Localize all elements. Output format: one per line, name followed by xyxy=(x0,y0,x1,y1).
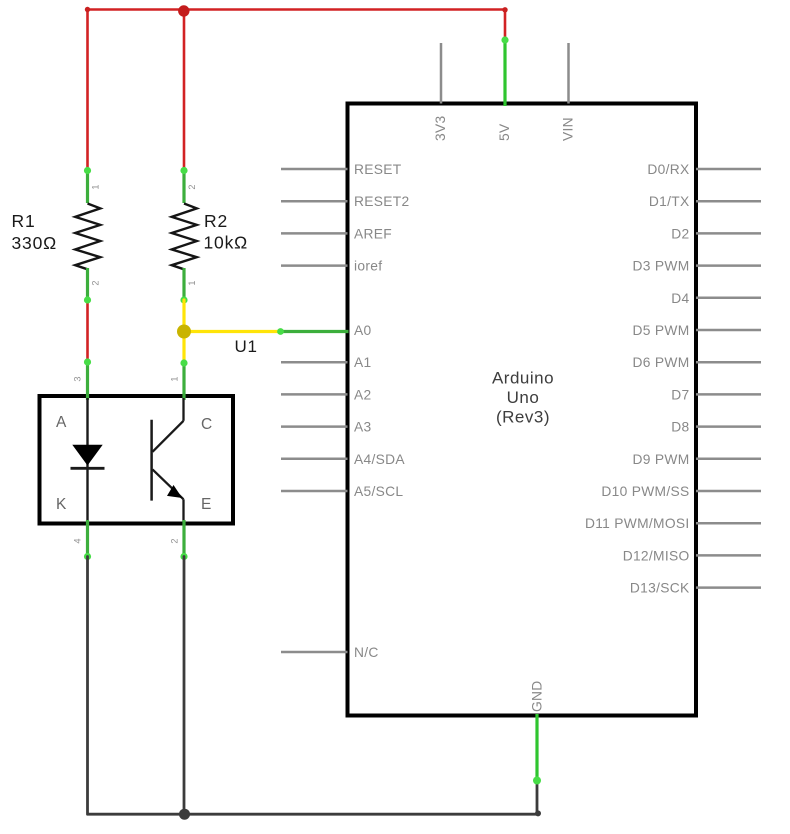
right pin labels xyxy=(585,162,690,596)
label R2 10kΩ xyxy=(204,211,249,253)
svg-text:D1/TX: D1/TX xyxy=(649,194,690,209)
wire: green into A0 pin xyxy=(277,328,348,335)
svg-text:A2: A2 xyxy=(354,387,371,402)
svg-text:A5/SCL: A5/SCL xyxy=(354,484,403,499)
svg-text:Uno: Uno xyxy=(507,388,540,407)
svg-text:D12/MISO: D12/MISO xyxy=(623,548,690,563)
svg-text:R1: R1 xyxy=(12,211,36,231)
svg-text:D5 PWM: D5 PWM xyxy=(633,323,690,338)
svg-text:D2: D2 xyxy=(671,226,689,241)
wire: red segment R1 pin 1 (bottom) down to optocoupler pin 3 xyxy=(86,300,89,362)
svg-text:D6 PWM: D6 PWM xyxy=(633,355,690,370)
svg-text:2: 2 xyxy=(91,280,101,285)
svg-text:3: 3 xyxy=(73,376,83,381)
pin stub: VIN (top) xyxy=(567,43,570,104)
label Arduino Uno (Rev3) xyxy=(492,369,554,427)
svg-text:E: E xyxy=(201,496,211,513)
svg-text:D9 PWM: D9 PWM xyxy=(633,452,690,467)
pin leg: R2 pin 1 (bottom, green) xyxy=(180,268,187,304)
transistor (U1 phototransistor) xyxy=(152,398,184,522)
resistor R2 zigzag xyxy=(172,204,197,270)
svg-text:A0: A0 xyxy=(354,323,372,338)
svg-text:R2: R2 xyxy=(204,211,228,231)
svg-text:A1: A1 xyxy=(354,355,371,370)
svg-text:D7: D7 xyxy=(671,387,689,402)
optocoupler U1 body xyxy=(40,396,234,524)
svg-text:D8: D8 xyxy=(671,420,689,435)
svg-text:D4: D4 xyxy=(671,291,689,306)
svg-text:GND: GND xyxy=(530,680,545,712)
left pin stubs xyxy=(281,169,348,652)
wire: ground net (dark) opto pin4 down, across, opto pin2 down, to GND xyxy=(88,557,538,815)
svg-text:330Ω: 330Ω xyxy=(12,233,57,253)
resistor R1 zigzag xyxy=(75,204,100,270)
pin leg: opto pin 3 (top-left, green) xyxy=(84,358,91,400)
pin leg: opto pin 2 (bottom-right, green) xyxy=(180,520,187,560)
svg-text:U1: U1 xyxy=(235,337,258,356)
svg-text:A4/SDA: A4/SDA xyxy=(354,452,405,467)
pin stub: GND (bottom) green xyxy=(533,714,541,785)
right pin stubs xyxy=(696,169,761,588)
svg-text:RESET2: RESET2 xyxy=(354,194,409,209)
svg-text:Arduino: Arduino xyxy=(492,369,554,388)
svg-text:D10 PWM/SS: D10 PWM/SS xyxy=(601,484,689,499)
svg-text:D11 PWM/MOSI: D11 PWM/MOSI xyxy=(585,516,690,531)
left pin labels xyxy=(354,162,409,660)
svg-text:D0/RX: D0/RX xyxy=(647,162,689,177)
pin leg: R1 pin 1 (top, green) xyxy=(84,167,91,203)
svg-text:5V: 5V xyxy=(497,123,512,141)
svg-text:RESET: RESET xyxy=(354,162,402,177)
wire: yellow net from R2 bottom to A0 and down to opto pin 1 xyxy=(184,300,281,363)
wire: green 5V pin with red feed xyxy=(501,36,508,106)
svg-text:N/C: N/C xyxy=(354,645,379,660)
pin leg: R1 pin 2 (bottom, green) xyxy=(84,268,91,304)
pin leg: opto pin 4 (bottom-left, green) xyxy=(84,520,91,560)
svg-text:A: A xyxy=(56,414,67,431)
pin stub: 3V3 (top) xyxy=(440,43,443,104)
svg-text:ioref: ioref xyxy=(354,259,382,274)
junction: red node on +5V rail xyxy=(85,5,508,16)
diode (U1 LED) xyxy=(71,398,105,522)
svg-text:2: 2 xyxy=(187,184,197,189)
pin leg: opto pin 1 (top-right, green) xyxy=(180,359,187,400)
svg-text:1: 1 xyxy=(91,184,101,189)
svg-text:3V3: 3V3 xyxy=(433,116,448,141)
svg-text:4: 4 xyxy=(73,538,83,543)
svg-text:(Rev3): (Rev3) xyxy=(496,407,550,426)
svg-text:D13/SCK: D13/SCK xyxy=(630,581,690,596)
svg-text:A3: A3 xyxy=(354,420,372,435)
pin leg: R2 pin 2 (top, green) xyxy=(180,167,187,203)
junction: ground node xyxy=(179,809,541,820)
label R1 330Ω xyxy=(12,211,57,253)
wire: +5V red top rail from R1 top across to 5V pin xyxy=(88,10,506,171)
junction: yellow node A0 net xyxy=(177,325,191,339)
svg-text:K: K xyxy=(56,496,67,513)
svg-text:C: C xyxy=(201,416,212,433)
Arduino Uno main body xyxy=(348,104,697,716)
svg-text:10kΩ: 10kΩ xyxy=(204,233,249,253)
svg-text:2: 2 xyxy=(170,538,180,543)
svg-text:VIN: VIN xyxy=(560,117,575,141)
svg-text:1: 1 xyxy=(187,280,197,285)
svg-text:1: 1 xyxy=(170,376,180,381)
svg-text:AREF: AREF xyxy=(354,226,392,241)
wire: red segment from junction down to R2 pin 2 xyxy=(183,10,186,171)
svg-text:D3 PWM: D3 PWM xyxy=(633,259,690,274)
